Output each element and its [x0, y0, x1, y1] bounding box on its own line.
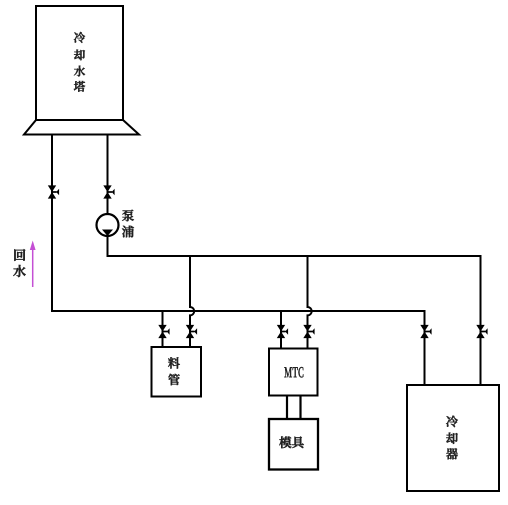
label 料管 [168, 357, 180, 368]
wire: return header [51, 310, 425, 312]
pump label 泵浦 [122, 210, 134, 222]
cooling tower label 冷却水塔 [74, 32, 85, 43]
cooling tower base (trapezoid) [24, 120, 139, 135]
wire: return drop from MTC [280, 310, 282, 348]
wire: supply drop to feed pipe box (with jump over return header) [190, 255, 194, 347]
valve V4 on supply drop [186, 325, 194, 338]
wire: pump outlet [107, 236, 109, 257]
cooler box 冷却器 [407, 385, 499, 491]
label 冷却器 [446, 416, 458, 427]
feed pipe box 料管 [152, 347, 202, 397]
wire: supply header [107, 255, 481, 257]
MTC box [269, 349, 318, 396]
mold box 模具 [269, 419, 318, 470]
cooling tower box [36, 6, 123, 120]
valve V2 on right tower pipe [103, 185, 111, 198]
wire: right tower pipe (suction) [107, 134, 109, 214]
wire: supply drop to MTC (with jump over return header) [308, 255, 312, 348]
wire: supply header drop to cooler [480, 255, 482, 385]
label 模具 [279, 436, 291, 448]
valve V5 on MTC return drop [277, 325, 285, 338]
wire: return drop from feed pipe box [162, 310, 164, 347]
valve V6 on MTC supply drop [303, 325, 311, 338]
wire: MTC to mold link (left) [286, 395, 288, 420]
label 回水 [14, 249, 25, 261]
valve V1 on left tower pipe [48, 185, 56, 198]
wire: MTC to mold link (right) [299, 395, 301, 420]
valve V8 on cooler supply drop [476, 325, 484, 338]
return water arrow (回水, magenta) [32, 248, 34, 287]
valve V3 on return drop [158, 325, 166, 338]
wire: return header drop to cooler [424, 310, 426, 385]
wire: left tower pipe (return riser) [51, 134, 53, 310]
label MTC [284, 367, 292, 377]
pump P1 (泵浦) [97, 214, 119, 236]
valve V7 on cooler return drop [420, 325, 428, 338]
